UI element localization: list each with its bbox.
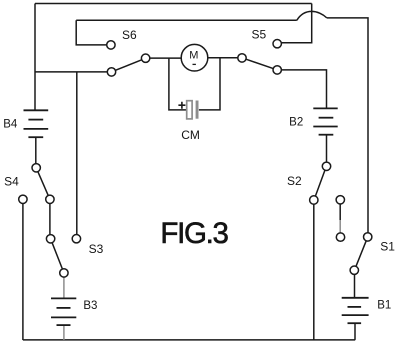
svg-text:B3: B3 <box>83 300 97 312</box>
svg-text:S5: S5 <box>252 28 267 42</box>
svg-text:S3: S3 <box>89 242 104 256</box>
svg-text:CM: CM <box>181 128 200 142</box>
svg-text:S6: S6 <box>122 28 137 42</box>
svg-text:FIG.3: FIG.3 <box>160 217 228 250</box>
svg-text:S1: S1 <box>380 240 395 254</box>
svg-text:S2: S2 <box>287 174 302 188</box>
svg-text:B4: B4 <box>3 118 18 130</box>
svg-text:S4: S4 <box>4 174 19 188</box>
svg-text:M: M <box>189 50 198 62</box>
svg-text:B2: B2 <box>289 116 303 128</box>
svg-text:B1: B1 <box>377 299 391 311</box>
